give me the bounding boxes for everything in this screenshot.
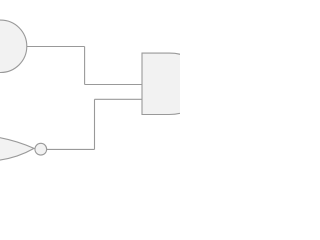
- wire: horizontal segment to inverter U1 output: [47, 148, 95, 150]
- wire: vertical segment down to inverter output row: [94, 99, 96, 149]
- wire: horizontal segment into U2 pin A: [85, 84, 142, 86]
- wire: vertical segment down to U2 pin A row: [84, 47, 86, 85]
- wire: horizontal segment into U2 pin B: [95, 98, 143, 100]
- inverter U1 triangle: [0, 136, 34, 160]
- wire: X1 output horizontal segment: [27, 46, 85, 48]
- inverter U1 output bubble: [35, 143, 47, 155]
- input node X1: [0, 20, 27, 72]
- IC U2 (delay block, right side rounded): [142, 53, 200, 114]
